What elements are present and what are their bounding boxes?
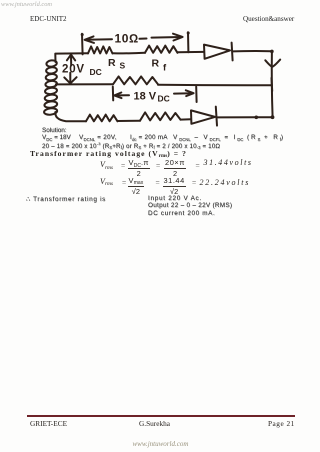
svg-text:DC: DC xyxy=(158,94,170,104)
junction tick at right rail (middle) xyxy=(271,78,274,91)
dimension arrow left (18VDC) xyxy=(115,94,129,96)
wire: RS to Rf xyxy=(113,52,146,55)
svg-text:f: f xyxy=(163,63,167,74)
dimension tick left (10 ohm) xyxy=(81,34,84,55)
header right xyxy=(243,15,294,23)
wire: D1 to top-right corner xyxy=(233,50,272,52)
solution text xyxy=(42,127,67,134)
wire: centre-tap middle wire xyxy=(56,83,113,85)
wire: middle resistor to right rail xyxy=(158,84,272,87)
wire: D2 to bottom-right corner xyxy=(217,116,273,118)
arrow up (20VDC) xyxy=(70,55,72,65)
footer texts xyxy=(30,419,67,428)
diode D1 (top) xyxy=(204,45,230,59)
resistor (middle wire) xyxy=(113,76,158,84)
transformer secondary coil T1 xyxy=(46,60,57,67)
dimension arrow right (10 ohm) xyxy=(152,36,182,39)
svg-text:20V: 20V xyxy=(62,63,85,75)
header left xyxy=(30,15,67,23)
dimension tick left (18VDC) xyxy=(112,87,114,101)
svg-text:R: R xyxy=(108,57,116,69)
dimension tick right (10 ohm) xyxy=(187,32,189,52)
conclusion xyxy=(26,196,106,203)
transformer rating line xyxy=(30,149,187,158)
watermark bottom xyxy=(133,440,189,448)
svg-text:18 V: 18 V xyxy=(134,90,157,102)
wire: bottom resistor to diode D2 xyxy=(181,118,192,120)
wire: coil bottom elbow to bottom wire xyxy=(55,112,86,121)
equation 2 xyxy=(100,177,113,186)
line 3 xyxy=(42,141,220,150)
dimension arrow left (10 ohm) xyxy=(86,38,113,41)
resistor (bottom wire, left) xyxy=(86,115,118,122)
svg-text:R: R xyxy=(152,58,160,70)
watermark top xyxy=(1,1,52,8)
wire: coil top stub to top wire xyxy=(55,53,88,62)
svg-text:10Ω: 10Ω xyxy=(115,32,139,46)
dimension arrow right (18VDC) xyxy=(174,92,192,94)
footer rule xyxy=(27,415,295,417)
diode D2 (bottom) xyxy=(191,110,215,123)
equation 1 xyxy=(100,160,113,169)
resistor Rf (top series) xyxy=(145,46,178,53)
current arrow on right rail xyxy=(265,60,280,67)
arrow down (20VDC) xyxy=(69,73,71,82)
resistor (bottom wire, right) xyxy=(140,112,181,120)
svg-text:DC: DC xyxy=(90,67,102,77)
wire: Rf to diode D1 xyxy=(178,51,205,53)
svg-text:S: S xyxy=(120,61,126,71)
wire: right vertical rail xyxy=(271,51,274,117)
line 2 groups xyxy=(42,134,71,141)
dimension tick right (18VDC) xyxy=(195,87,197,102)
junction dots bottom right xyxy=(254,116,258,120)
resistor RS (top series) xyxy=(88,46,113,53)
wire: between bottom resistors xyxy=(118,120,141,122)
